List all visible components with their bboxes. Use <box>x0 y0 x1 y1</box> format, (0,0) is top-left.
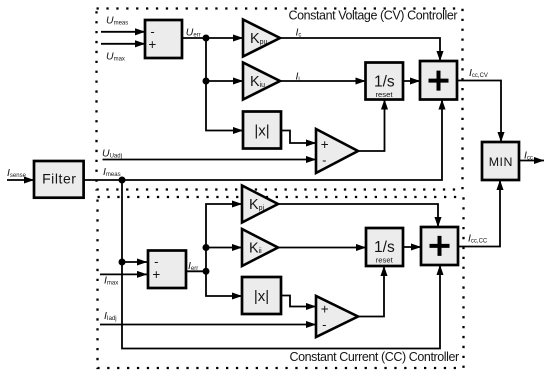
svg-text:-: - <box>322 317 326 332</box>
svg-text:Filter: Filter <box>42 171 76 187</box>
svg-text:+: + <box>321 137 329 152</box>
svg-text:reset: reset <box>376 256 394 265</box>
svg-text:+: + <box>321 301 329 316</box>
svg-text:|x|: |x| <box>254 122 269 139</box>
svg-text:MIN: MIN <box>489 155 513 169</box>
svg-text:reset: reset <box>375 90 393 99</box>
svg-text:Constant Voltage (CV) Controll: Constant Voltage (CV) Controller <box>289 8 458 22</box>
svg-text:Constant Current (CC) Controll: Constant Current (CC) Controller <box>290 350 460 364</box>
svg-text:+: + <box>148 37 156 52</box>
svg-text:1/s: 1/s <box>374 239 395 256</box>
svg-text:-: - <box>322 152 326 167</box>
svg-text:|x|: |x| <box>254 288 269 305</box>
svg-text:+: + <box>152 267 160 282</box>
svg-text:1/s: 1/s <box>374 73 395 90</box>
